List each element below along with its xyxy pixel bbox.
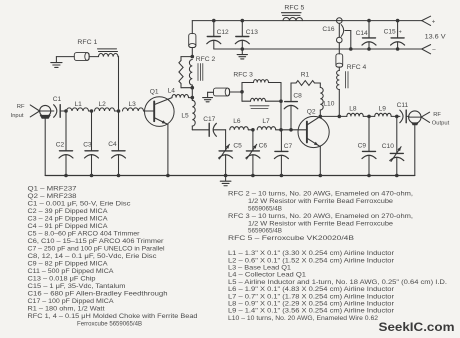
capacitor C8 [284, 83, 302, 130]
svg-text:C3: C3 [83, 142, 92, 149]
ground at RFC3 [203, 92, 213, 102]
svg-text:C15: C15 [384, 29, 396, 36]
svg-text:5659065/4B: 5659065/4B [248, 228, 282, 235]
svg-text:C1: C1 [53, 96, 62, 103]
wire node F to node G [281, 129, 291, 131]
transistor Q1 MRF237 [145, 89, 175, 127]
svg-text:C11 – 500 pF Dipped MICA: C11 – 500 pF Dipped MICA [28, 268, 115, 275]
svg-text:RFC 1: RFC 1 [77, 39, 97, 46]
svg-text:L8 – 0.9" X 0.1" (2.29 X 0.2: L8 – 0.9" X 0.1" (2.29 X 0.254 cm) Airli… [228, 301, 394, 308]
capacitor C11 [397, 102, 409, 123]
svg-text:C8, 12, 14 – 0.1 μF, 50-Vdc, E: C8, 12, 14 – 0.1 μF, 50-Vdc, Erie Disc [28, 253, 157, 260]
svg-text:C9 – 82 pF Dipped MICA: C9 – 82 pF Dipped MICA [28, 261, 109, 268]
inductor L4 [168, 88, 193, 98]
terminal +13.6V [422, 16, 447, 40]
svg-text:5659065/4B: 5659065/4B [248, 206, 282, 213]
svg-text:L6: L6 [233, 118, 241, 125]
svg-text:L2 – 0.6" X 0.1" (1.52 X 0.2: L2 – 0.6" X 0.1" (1.52 X 0.254 cm) Airli… [228, 257, 394, 264]
svg-text:C17 – 100 pF Dipped MICA: C17 – 100 pF Dipped MICA [28, 298, 115, 305]
parts list left column [28, 186, 199, 328]
svg-text:RF: RF [17, 104, 25, 110]
capacitor C14 [356, 19, 376, 51]
svg-text:C1 – 0.001 μF, 50-V, Erie Disc: C1 – 0.001 μF, 50-V, Erie Disc [28, 201, 131, 208]
svg-text:L10: L10 [323, 100, 334, 107]
svg-text:C5 – 8.0–60 pF ARCO 404 Trimme: C5 – 8.0–60 pF ARCO 404 Trimmer [28, 231, 140, 238]
inductor L1 [67, 101, 92, 111]
node C junction L2-L3-C4-RFC1 [117, 109, 121, 113]
svg-text:L2: L2 [99, 101, 107, 108]
SeekIC.com watermark [379, 322, 455, 334]
ground rail junction dots [64, 174, 398, 178]
svg-text:Q2 – MRF238: Q2 – MRF238 [28, 193, 78, 200]
svg-text:L7: L7 [262, 118, 270, 125]
node F junction L7-RFC3-C7 [279, 128, 283, 132]
lower supply rail wire [214, 48, 422, 50]
svg-text:Ferroxcube 5659065/4B: Ferroxcube 5659065/4B [77, 321, 142, 328]
svg-text:L7 – 0.7" X 0.1" (1.78 X 0.2: L7 – 0.7" X 0.1" (1.78 X 0.254 cm) Airli… [228, 293, 394, 300]
node J junction L8-L9-C9 [367, 115, 371, 119]
top supply rail wire [192, 20, 421, 22]
choke RFC1 [56, 39, 118, 60]
feedthrough capacitor C16 [322, 18, 352, 51]
svg-text:C12: C12 [217, 29, 229, 36]
svg-text:RFC 4: RFC 4 [347, 64, 367, 71]
svg-text:C7 – 250 pF and 100 pF UNELCO: C7 – 250 pF and 100 pF UNELCO in Paralle… [28, 246, 165, 253]
wire RFC2 bottom to node D [191, 88, 193, 101]
capacitor C2 [56, 111, 73, 176]
svg-text:RFC 2: RFC 2 [196, 56, 216, 63]
svg-text:L9 – 1.4" X 0.1" (3.56 X 0.2: L9 – 1.4" X 0.1" (3.56 X 0.254 cm) Airli… [228, 308, 394, 315]
svg-text:RFC 5: RFC 5 [284, 4, 304, 11]
svg-text:C4 – 91 pF Dipped MICA: C4 – 91 pF Dipped MICA [28, 223, 109, 230]
svg-text:R1 – 180 ohm, 1/2 Watt: R1 – 180 ohm, 1/2 Watt [28, 306, 105, 313]
capacitor C4 [108, 111, 125, 176]
svg-text:Input: Input [11, 113, 24, 119]
choke RFC3 [208, 71, 283, 108]
svg-text:L3: L3 [129, 101, 137, 108]
capacitor C15 [384, 19, 405, 51]
svg-text:Q2: Q2 [307, 108, 316, 115]
wire Q1 emitter to ground rail [167, 124, 169, 175]
choke RFC2 [179, 21, 216, 90]
node K junction L9-C10-C11 [395, 115, 399, 119]
svg-text:Output: Output [432, 121, 450, 127]
svg-text:C9: C9 [358, 142, 367, 149]
trimmer capacitor C6 [246, 130, 267, 176]
svg-text:L10 – 10 turns, No. 20 AWG, En: L10 – 10 turns, No. 20 AWG, Enameled Wir… [228, 315, 379, 322]
inductor L10 [320, 83, 334, 116]
svg-text:Q1: Q1 [150, 89, 159, 96]
svg-text:RFC 3 – 10 turns, No. 20 AWG,: RFC 3 – 10 turns, No. 20 AWG, Enameled o… [228, 213, 413, 220]
inductor L5 [181, 100, 195, 130]
wire input shell down to ground rail [44, 119, 46, 176]
svg-text:1/2 W Resistor with Ferrite Be: 1/2 W Resistor with Ferrite Bead Ferroxc… [248, 198, 394, 205]
terminal -13.6V [422, 45, 437, 54]
capacitor C1 [51, 96, 66, 118]
node A junction C1-L1-C2 [64, 109, 68, 113]
svg-text:C13: C13 [246, 29, 258, 36]
svg-text:RFC 3: RFC 3 [233, 71, 253, 78]
svg-text:C6: C6 [259, 143, 268, 150]
capacitor C12 [207, 19, 229, 49]
svg-text:L6 – 1.9" X 0.1" (4.83 X 0.2: L6 – 1.9" X 0.1" (4.83 X 0.254 cm) Airli… [228, 286, 394, 293]
svg-text:1/2 W Resistor with Ferrite Be: 1/2 W Resistor with Ferrite Bead Ferroxc… [248, 220, 394, 227]
svg-text:C14: C14 [356, 30, 368, 37]
svg-text:C2 – 39 pF Dipped MICA: C2 – 39 pF Dipped MICA [28, 208, 109, 215]
node G junction C8-base [289, 128, 293, 132]
wire node G to Q2 base [291, 129, 307, 131]
inductor L9 [369, 106, 397, 117]
svg-text:C4: C4 [108, 141, 117, 148]
node I junction RFC4-collector row [338, 115, 342, 119]
node D junction L4-RFC2-L5 [191, 96, 195, 100]
svg-text:L1 – 1.3" X 0.1" (3.30 X 0.2: L1 – 1.3" X 0.1" (3.30 X 0.254 cm) Airli… [228, 250, 394, 257]
ground at C13 [237, 49, 247, 59]
inductor L8 [347, 106, 369, 117]
wire Q2 emitter to ground rail [319, 147, 321, 176]
inductor L6 [230, 118, 253, 130]
svg-text:–: – [432, 48, 436, 54]
capacitor C7 [274, 130, 292, 176]
svg-text:Q1 – MRF237: Q1 – MRF237 [28, 186, 78, 193]
transistor Q2 MRF238 [298, 108, 329, 147]
svg-text:13.6 V: 13.6 V [425, 34, 447, 41]
svg-text:C8: C8 [293, 92, 302, 99]
svg-text:RFC 1, 4 – 0.15 μH Molded Chok: RFC 1, 4 – 0.15 μH Molded Choke with Fer… [28, 313, 199, 320]
svg-text:L5: L5 [181, 113, 189, 120]
wire collector node to L8 [320, 115, 347, 117]
node H junction Q2 collector-L10 [319, 115, 323, 119]
choke RFC4 [336, 43, 367, 117]
svg-text:C13 – 0.018 μF Chip: C13 – 0.018 μF Chip [28, 276, 97, 283]
svg-text:C5: C5 [233, 143, 242, 150]
svg-text:RF: RF [433, 112, 441, 118]
svg-text:C17: C17 [203, 116, 215, 123]
svg-text:L9: L9 [379, 106, 387, 113]
inductor L2 [95, 101, 119, 111]
parts list right column [228, 191, 447, 322]
wire output shell to ground rail [414, 125, 416, 175]
svg-text:+: + [432, 19, 436, 25]
ground at RFC1 [51, 57, 62, 68]
inductor L7 [257, 118, 281, 130]
capacitor C17 [192, 116, 225, 136]
choke RFC5 [282, 4, 305, 20]
trimmer capacitor C5 [219, 130, 243, 176]
node E junction L6-L7-C6 [251, 128, 255, 132]
node B junction L1-L2-C3 [90, 109, 94, 113]
capacitor C9 [358, 116, 376, 175]
svg-text:L1: L1 [75, 101, 83, 108]
svg-text:C10: C10 [382, 143, 394, 150]
svg-text:RFC 5 – Ferroxcube VK20020/4B: RFC 5 – Ferroxcube VK20020/4B [228, 235, 354, 242]
svg-text:C16 – 680 pF Allen-Bradley Fee: C16 – 680 pF Allen-Bradley Feedthrough [28, 291, 169, 298]
trimmer capacitor C10 [382, 116, 404, 175]
svg-text:C6, C10 – 15–115 pF ARCO 406 T: C6, C10 – 15–115 pF ARCO 406 Trimmer [28, 238, 164, 245]
svg-text:C11: C11 [397, 102, 409, 109]
svg-text:C2: C2 [56, 142, 65, 149]
svg-text:L3 – Base Lead Q1: L3 – Base Lead Q1 [228, 265, 292, 272]
svg-text:C15 – 1 μF, 35-Vdc, Tantalum: C15 – 1 μF, 35-Vdc, Tantalum [28, 283, 126, 290]
RF Output connector J2 [409, 111, 450, 127]
svg-text:C7: C7 [284, 143, 293, 150]
svg-text:C16: C16 [322, 26, 334, 33]
wire RFC3 to interstage row [280, 101, 282, 130]
bottom ground rail wire [45, 175, 415, 177]
resistor R1 [291, 71, 320, 85]
inductor L3 [123, 101, 155, 111]
svg-text:L8: L8 [349, 106, 357, 113]
svg-text:L5 – Airline Inductor and 1-: L5 – Airline Inductor and 1-turn, No. 18… [228, 279, 447, 286]
capacitor C13 [235, 19, 258, 51]
svg-text:R1: R1 [301, 71, 310, 78]
RF Input connector J1 [11, 104, 51, 119]
svg-text:RFC 2 – 10 turns, No. 20 AWG,: RFC 2 – 10 turns, No. 20 AWG, Enameled o… [228, 191, 413, 198]
svg-text:L4 – Collector Lead Q1: L4 – Collector Lead Q1 [228, 272, 307, 279]
svg-text:L4: L4 [168, 88, 176, 95]
svg-text:C3 – 24 pF Dipped MICA: C3 – 24 pF Dipped MICA [28, 216, 109, 223]
ground at bottom rail [220, 176, 231, 186]
capacitor C3 [83, 111, 98, 176]
svg-text:+: + [399, 30, 402, 36]
wire RFC1 to node C [117, 57, 120, 111]
svg-text:SeekIC.com: SeekIC.com [379, 322, 455, 334]
